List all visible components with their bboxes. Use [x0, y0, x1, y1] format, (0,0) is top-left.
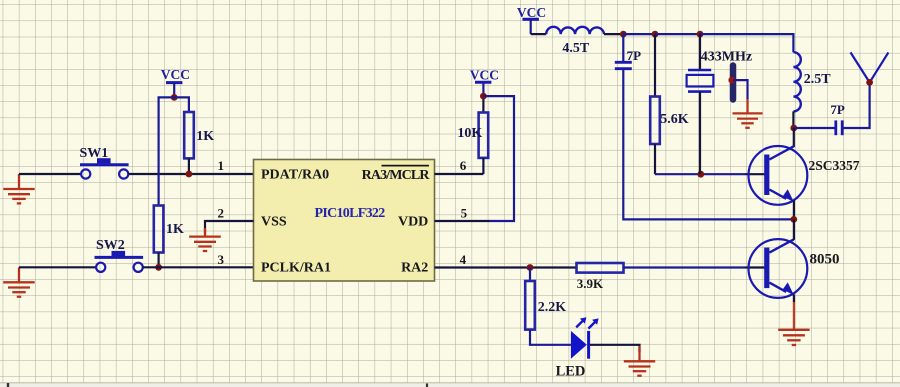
- LED D1: [571, 317, 599, 359]
- wire IC pin2 (VSS): [205, 221, 254, 233]
- power VCC (left): [161, 67, 190, 97]
- svg-text:2: 2: [218, 206, 225, 221]
- junction node antenna feed: [866, 79, 873, 86]
- svg-text:6: 6: [460, 158, 467, 173]
- wire rail Y1 to L2: [700, 34, 793, 52]
- crystal Y1 433MHz: [687, 34, 714, 174]
- wire IC pin6 to R3: [435, 173, 484, 175]
- svg-text:2SC3357: 2SC3357: [809, 158, 860, 173]
- wire pin4 node to R5: [529, 268, 531, 282]
- svg-text:3: 3: [218, 252, 225, 267]
- ground GND5 (Q2 emitter): [778, 330, 809, 345]
- wire VCC-left to RA1 pull-up column: [159, 97, 175, 205]
- svg-text:1K: 1K: [196, 129, 214, 144]
- svg-text:3.9K: 3.9K: [577, 276, 604, 291]
- ground GND3 (VSS): [189, 228, 221, 251]
- svg-text:7P: 7P: [830, 102, 845, 117]
- resistor R2 1K (RA1 pull-up): [154, 206, 164, 268]
- svg-text:5.6K: 5.6K: [660, 112, 689, 127]
- resistor R6 3.9K: [577, 263, 624, 273]
- svg-text:2.5T: 2.5T: [804, 72, 832, 87]
- svg-text:PCLK/RA1: PCLK/RA1: [261, 261, 331, 276]
- svg-text:VCC: VCC: [517, 5, 546, 20]
- antenna E1: [851, 52, 889, 82]
- resistor R5 2.2K: [525, 281, 535, 330]
- junction node L2 bottom / collector: [790, 125, 797, 132]
- junction node pin4 / R5: [527, 264, 534, 271]
- svg-text:PDAT/RA0: PDAT/RA0: [261, 168, 329, 183]
- switch SW1: [80, 158, 129, 178]
- ground GND6 (LED): [624, 346, 655, 376]
- switch SW2: [95, 251, 144, 272]
- wire R6 to Q2 base: [624, 266, 746, 268]
- power VCC (top): [517, 5, 546, 34]
- svg-text:VDD: VDD: [398, 215, 428, 230]
- wire Q1 emitter to node: [793, 201, 795, 220]
- svg-text:SW2: SW2: [96, 238, 125, 253]
- svg-text:RA2: RA2: [401, 261, 428, 276]
- wire GND2 to SW2: [19, 266, 96, 268]
- junction node R2 / pin3: [155, 264, 162, 271]
- svg-text:433MHz: 433MHz: [701, 50, 752, 65]
- wire L2 node to C2: [794, 127, 835, 129]
- wire C1 bottom to Q1 emitter row: [623, 70, 794, 219]
- svg-text:VCC: VCC: [161, 67, 190, 82]
- IC U1 PIC10LF322: [254, 160, 435, 282]
- wire L2 node to Q1 collector: [793, 128, 795, 147]
- svg-text:VSS: VSS: [261, 215, 287, 230]
- junction node C1 top: [620, 31, 627, 38]
- capacitor C2 7P (coupling): [836, 120, 842, 135]
- svg-text:1K: 1K: [166, 222, 184, 237]
- svg-text:1: 1: [218, 158, 225, 173]
- wire IC pin5 stub: [435, 220, 491, 222]
- ground GND4: [733, 99, 763, 128]
- resistor R3 10K: [479, 96, 489, 174]
- resistor R1 1K (RA0 pull-up): [184, 112, 194, 174]
- wire L3 to GND4: [733, 80, 748, 99]
- junction node Y1 top: [697, 31, 704, 38]
- power VCC (middle): [470, 68, 499, 97]
- resistor R4 5.6K: [650, 34, 660, 174]
- junction node VCC-middle: [480, 93, 487, 100]
- wire rail R4 to Y1: [655, 33, 700, 35]
- svg-text:7P: 7P: [627, 48, 642, 63]
- wire R4/Y1 node to Q1 base: [655, 173, 745, 175]
- junction node on L3: [728, 77, 735, 84]
- junction node VCC-left: [171, 94, 178, 101]
- wire Q2 collector to node: [793, 219, 795, 240]
- svg-text:PIC10LF322: PIC10LF322: [315, 206, 386, 221]
- junction node R1 / pin1: [186, 171, 193, 178]
- junction node Q1 emitter / Q2 collector: [790, 216, 797, 223]
- ground GND2 (left, RA1 switch row): [3, 267, 34, 296]
- svg-text:4: 4: [460, 252, 467, 267]
- wire LED cathode to GND6: [590, 345, 640, 352]
- svg-text:VCC: VCC: [470, 68, 499, 83]
- transistor Q2 8050: [749, 239, 808, 298]
- wire rail C1 to R4: [623, 33, 655, 35]
- capacitor C1 7P: [615, 34, 632, 69]
- ground GND1 (left, RA0 switch row): [3, 174, 34, 203]
- inductor L1 4.5T: [546, 27, 604, 34]
- junction node R4 top: [652, 31, 659, 38]
- inductor L3 (printed coil, maroon bar): [730, 66, 737, 100]
- wire C2 to antenna: [843, 82, 869, 128]
- svg-text:8050: 8050: [810, 252, 840, 268]
- wire R5 to LED anode: [530, 330, 571, 345]
- wire VCC-top to L1: [531, 33, 547, 35]
- svg-text:2.2K: 2.2K: [538, 300, 567, 315]
- wire Q2 emitter to GND5: [793, 295, 795, 303]
- wire L1 to C1 node: [604, 33, 623, 35]
- wire GND1 to SW1: [19, 173, 81, 175]
- junction node Y1 bottom: [697, 171, 704, 178]
- svg-text:4.5T: 4.5T: [562, 41, 590, 56]
- svg-text:LED: LED: [556, 364, 586, 380]
- transistor Q1 2SC3357: [749, 146, 808, 205]
- svg-text:5: 5: [461, 206, 468, 221]
- wire VCC-left to R1 top: [174, 97, 189, 112]
- wire SW2 to IC pin3: [143, 266, 254, 268]
- wire SW1 to IC pin1: [129, 173, 254, 175]
- wire VCC-middle to VDD (pin5): [483, 96, 514, 221]
- svg-text:SW1: SW1: [80, 146, 109, 161]
- svg-text:10K: 10K: [457, 126, 482, 141]
- inductor L2 2.5T: [793, 52, 800, 128]
- svg-text:RA3/MCLR: RA3/MCLR: [362, 168, 431, 183]
- wire IC pin4 to R6: [435, 266, 577, 268]
